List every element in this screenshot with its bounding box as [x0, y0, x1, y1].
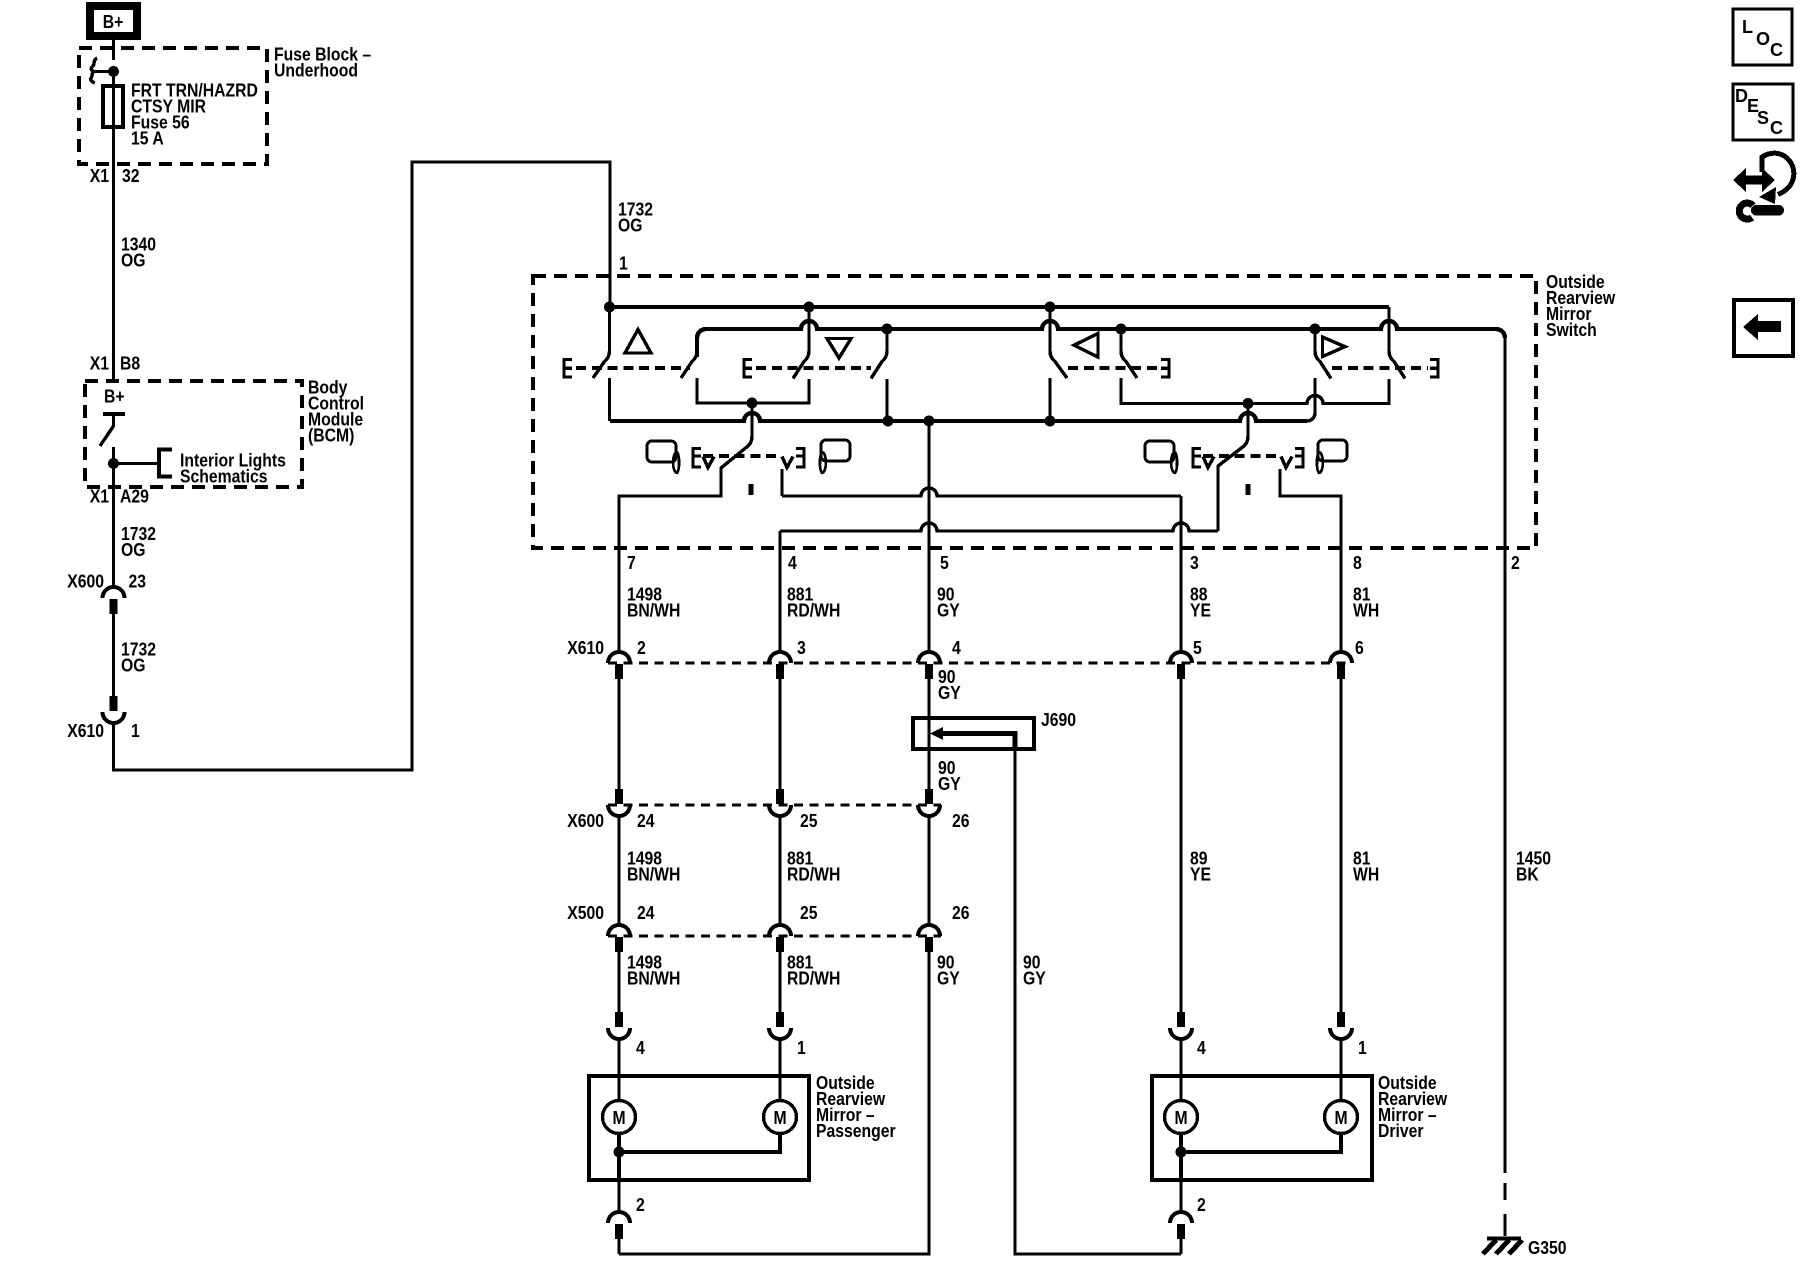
wire 90 GY upper [927, 548, 930, 652]
select bracket passenger left [693, 449, 701, 468]
lower bus left drop [608, 378, 611, 421]
switch blade right-left [1315, 329, 1331, 379]
svg-text:BN/WH: BN/WH [627, 601, 680, 621]
wire 88 YE upper [1179, 548, 1182, 652]
wire 1450 BK to ground [1503, 548, 1506, 1173]
select switch driver right contact [1280, 469, 1341, 548]
svg-text:2: 2 [1511, 553, 1520, 573]
mech link bracket down [744, 360, 752, 378]
select bracket driver left [1193, 449, 1201, 468]
icon back arrow box [1734, 300, 1793, 356]
svg-text:B+: B+ [103, 12, 124, 32]
svg-text:26: 26 [952, 811, 970, 831]
BCM internal switch [103, 412, 125, 416]
fuse F56 15A [112, 72, 115, 87]
svg-text:5: 5 [1193, 638, 1202, 658]
switch blade up-left [593, 307, 610, 378]
svg-text:2: 2 [1197, 1195, 1206, 1215]
outside rearview mirror switch box [533, 276, 1536, 548]
junction dot driver common [1176, 1147, 1187, 1158]
svg-text:L: L [1742, 17, 1753, 37]
junction dot pair link driver [1243, 398, 1254, 409]
passenger mirror pin 2 [617, 1180, 620, 1212]
wire 1732 OG lower [112, 613, 115, 697]
connector driver mirror pin 1 [1337, 1012, 1345, 1027]
wire B+ to fuse block [112, 40, 115, 60]
connector driver mirror pin 4 [1177, 1012, 1185, 1027]
svg-text:15 A: 15 A [131, 129, 164, 149]
below blade left-left stub [1048, 378, 1051, 421]
junction dot fuse feed [108, 66, 119, 77]
connector X600 pin 23 [103, 587, 125, 598]
fuse block underhood box [79, 48, 267, 164]
svg-text:X1: X1 [90, 487, 109, 507]
connector row X500 dashed line [608, 935, 941, 938]
connector X500 pin 24 [608, 925, 630, 936]
main bus [610, 305, 1389, 309]
bus tap squiggle [91, 58, 97, 83]
connector passenger mirror pin 1 [776, 1012, 784, 1027]
mech link bracket left [1161, 360, 1169, 378]
select switch passenger left contact [619, 467, 721, 548]
svg-text:Schematics: Schematics [180, 467, 268, 487]
svg-text:4: 4 [788, 553, 797, 573]
svg-text:1: 1 [131, 721, 140, 741]
junction dot main bus feed [604, 302, 615, 313]
mirror icon passenger right [820, 452, 826, 473]
second bus common [697, 321, 1505, 338]
driver motor common link [1181, 1134, 1341, 1181]
mech link dash left [1068, 366, 1159, 370]
wire 81 WH long [1339, 679, 1342, 1012]
motor M driver right [1325, 1101, 1358, 1134]
junction dot main bus left-left [1045, 302, 1056, 313]
svg-text:OG: OG [121, 656, 146, 676]
icon loc box [1733, 9, 1792, 65]
mirror icon driver right [1317, 452, 1323, 473]
motor M passenger left [603, 1101, 636, 1134]
right arrow symbol [1323, 337, 1346, 357]
svg-text:B8: B8 [120, 354, 140, 374]
svg-text:7: 7 [627, 553, 636, 573]
svg-text:8: 8 [1353, 553, 1362, 573]
wire 89 YE long [1179, 679, 1182, 1012]
wire 1498 BN/WH low [617, 816, 620, 925]
svg-text:O: O [1756, 29, 1770, 49]
select dash passenger [703, 454, 780, 458]
wire to passenger mirror pin 4 [617, 952, 620, 1012]
switch blade down-left [793, 307, 809, 379]
select switch passenger right contact [780, 469, 783, 496]
wire to passenger mirror pin 1 [778, 952, 781, 1012]
mirror icon driver left pivot [1171, 452, 1177, 473]
select switch driver pivot [1218, 404, 1248, 467]
connector X600 pin 24 [615, 789, 623, 804]
svg-text:X610: X610 [67, 721, 104, 741]
svg-text:BN/WH: BN/WH [627, 969, 680, 989]
icon wrench [1739, 203, 1753, 219]
select dash driver [1203, 454, 1279, 458]
svg-text:1: 1 [797, 1038, 806, 1058]
svg-text:Underhood: Underhood [274, 61, 358, 81]
mech link bracket right [1430, 360, 1438, 378]
svg-text:A29: A29 [120, 487, 149, 507]
wire 1498 BN/WH mid [617, 679, 620, 789]
svg-text:23: 23 [129, 572, 147, 592]
select switch driver left contact [1216, 465, 1219, 531]
svg-text:OG: OG [618, 216, 643, 236]
connector X610 pin 2 [608, 652, 630, 663]
connector X610 pin 6 [1330, 652, 1352, 663]
svg-text:4: 4 [1197, 1038, 1206, 1058]
svg-text:WH: WH [1353, 601, 1379, 621]
svg-text:6: 6 [1355, 638, 1364, 658]
connector X500 pin 26 [918, 925, 940, 936]
wire 90 GY return [619, 952, 929, 1254]
svg-text:Driver: Driver [1378, 1121, 1424, 1141]
junction dot pair link passenger [747, 398, 758, 409]
svg-text:Passenger: Passenger [816, 1121, 896, 1141]
svg-text:25: 25 [800, 903, 818, 923]
svg-text:WH: WH [1353, 865, 1379, 885]
motor M passenger right [764, 1101, 797, 1134]
second bus right drop to pin 2 [1503, 336, 1506, 548]
driver mirror pin 2 [1179, 1180, 1182, 1212]
svg-text:GY: GY [937, 969, 960, 989]
select bracket driver right [1281, 457, 1292, 468]
splice J690 [913, 718, 1034, 749]
svg-text:4: 4 [952, 638, 961, 658]
body control module box [85, 381, 302, 487]
switch blade right-right [1389, 307, 1405, 379]
svg-text:5: 5 [940, 553, 949, 573]
left arrow symbol [1074, 334, 1098, 358]
switch blade down-right [871, 329, 887, 379]
wire 881 RD/WH mid [778, 679, 781, 789]
mirror icon passenger left pivot [673, 452, 679, 473]
wire 881 RD/WH upper [778, 548, 781, 652]
svg-text:YE: YE [1190, 601, 1211, 621]
down arrow symbol [827, 339, 851, 359]
svg-text:24: 24 [637, 903, 655, 923]
wire 90 GY low [927, 816, 930, 925]
ground G350 [1487, 1237, 1521, 1241]
bus tap bar [94, 70, 114, 73]
interior lights schematics bracket [114, 462, 159, 465]
svg-text:26: 26 [952, 903, 970, 923]
motor M driver left [1165, 1101, 1198, 1134]
wire 90 GY to splice [927, 679, 930, 718]
switch blade left-left [1050, 307, 1067, 378]
svg-text:X600: X600 [567, 811, 604, 831]
svg-text:X1: X1 [90, 166, 109, 186]
pin 5 drop from lower bus [927, 421, 930, 548]
svg-text:X500: X500 [567, 903, 604, 923]
wire 881 RD/WH low [778, 816, 781, 925]
select switch driver detent [1246, 484, 1251, 495]
connector X610 pin 3 [769, 652, 791, 663]
switch blade up-right [681, 336, 697, 378]
svg-text:BN/WH: BN/WH [627, 865, 680, 885]
wire 1340 OG [112, 164, 115, 381]
svg-text:RD/WH: RD/WH [787, 969, 840, 989]
svg-text:S: S [1757, 108, 1769, 128]
mech link bracket up [564, 360, 572, 378]
svg-text:C: C [1770, 40, 1783, 60]
pair link up-down [697, 378, 809, 403]
wire 90 GY below splice [927, 749, 930, 789]
junction dot BCM [108, 458, 119, 469]
svg-text:OG: OG [121, 540, 146, 560]
svg-text:C: C [1770, 118, 1783, 138]
connector X600 pin 26 [925, 789, 933, 804]
svg-text:3: 3 [1190, 553, 1199, 573]
feed loop wire to switch [114, 162, 611, 770]
svg-text:B+: B+ [104, 387, 125, 407]
icon schematic navigation arrows [1733, 168, 1775, 192]
svg-text:(BCM): (BCM) [308, 426, 354, 446]
below blade down-right stub [885, 379, 888, 421]
outside rearview mirror driver box [1152, 1076, 1372, 1180]
svg-text:X600: X600 [67, 572, 104, 592]
mirror icon passenger left [647, 441, 676, 462]
svg-text:BK: BK [1516, 865, 1539, 885]
svg-text:RD/WH: RD/WH [787, 865, 840, 885]
svg-text:M: M [612, 1108, 625, 1128]
connector row X600 dashed line [608, 804, 941, 807]
pair link left-right [1121, 378, 1389, 404]
connector passenger mirror pin 4 [615, 1012, 623, 1027]
select bracket passenger right [782, 457, 793, 468]
svg-text:M: M [1334, 1108, 1347, 1128]
svg-text:Switch: Switch [1546, 320, 1597, 340]
svg-text:3: 3 [797, 638, 806, 658]
svg-text:GY: GY [938, 683, 961, 703]
svg-text:1: 1 [619, 254, 628, 274]
BCM switch output wire [112, 447, 115, 487]
mech link dash up [576, 366, 690, 370]
mech link dash down [756, 366, 871, 370]
power feed B+ terminal [90, 6, 137, 36]
svg-text:24: 24 [637, 811, 655, 831]
lower bus [610, 413, 1307, 421]
svg-text:GY: GY [937, 601, 960, 621]
driver left contact run to pin 4 [780, 523, 1218, 531]
connector X610 pin 4 [918, 652, 940, 663]
wire 1498 BN/WH upper [617, 548, 620, 652]
icon desc box [1733, 84, 1793, 140]
svg-text:2: 2 [637, 638, 646, 658]
connector row X610 dashed line [608, 662, 1352, 665]
select switch passenger detent [749, 484, 754, 495]
mech link dash right [1332, 366, 1428, 370]
connector X600 pin 25 [776, 789, 784, 804]
svg-text:X610: X610 [567, 638, 604, 658]
svg-text:2: 2 [636, 1195, 645, 1215]
wire 90 GY splice branch [1015, 749, 1181, 1254]
second bus left drop [695, 336, 699, 357]
svg-text:OG: OG [121, 251, 146, 271]
connector X500 pin 25 [769, 925, 791, 936]
wire 1732 OG upper [112, 487, 115, 587]
svg-text:X1: X1 [90, 354, 109, 374]
svg-text:M: M [1174, 1108, 1187, 1128]
outside rearview mirror passenger box [589, 1076, 809, 1180]
switch blade left-right [1121, 329, 1137, 378]
svg-text:YE: YE [1190, 865, 1211, 885]
svg-text:RD/WH: RD/WH [787, 601, 840, 621]
svg-text:GY: GY [938, 774, 961, 794]
svg-text:32: 32 [122, 166, 140, 186]
svg-text:J690: J690 [1041, 710, 1076, 730]
passenger motor common link [619, 1134, 780, 1181]
up arrow symbol [625, 330, 651, 354]
lower bus riser to second bus [1307, 378, 1315, 421]
svg-text:GY: GY [1023, 969, 1046, 989]
svg-text:1: 1 [1358, 1038, 1367, 1058]
junction dot passenger common [614, 1147, 625, 1158]
select switch passenger pivot [721, 403, 752, 468]
junction dot main bus down-left [804, 302, 815, 313]
wire 81 WH upper [1339, 548, 1342, 652]
connector X610 pin 5 [1170, 652, 1192, 663]
connector X610 pin 1 [110, 696, 118, 711]
svg-text:G350: G350 [1528, 1238, 1567, 1258]
mirror icon driver left [1145, 441, 1174, 462]
passenger right contact run to pin 3 [782, 488, 1181, 496]
svg-text:M: M [773, 1108, 786, 1128]
svg-text:25: 25 [800, 811, 818, 831]
svg-text:4: 4 [636, 1038, 645, 1058]
